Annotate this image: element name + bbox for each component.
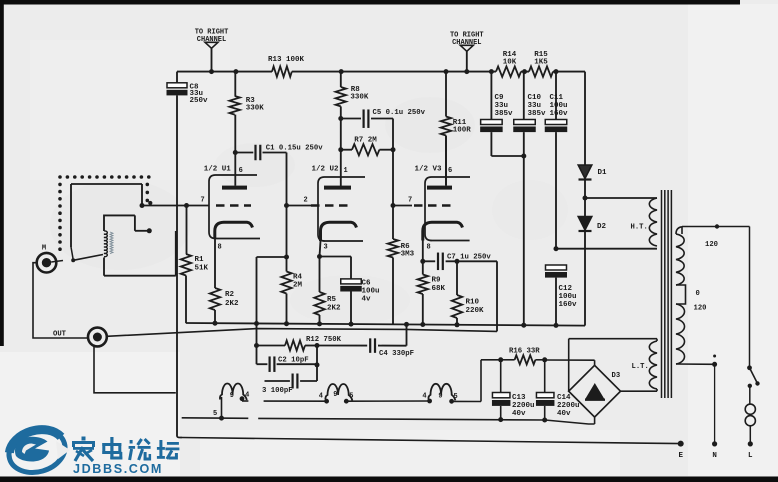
svg-text:160v: 160v <box>550 110 569 118</box>
svg-text:8: 8 <box>218 244 222 252</box>
svg-text:5: 5 <box>213 410 217 418</box>
svg-text:160v: 160v <box>559 301 578 309</box>
svg-text:C7 1u 250v: C7 1u 250v <box>447 253 491 261</box>
svg-text:100u: 100u <box>559 293 577 301</box>
svg-text:250v: 250v <box>190 97 209 105</box>
svg-text:3: 3 <box>324 244 328 252</box>
svg-text:1/2 U1: 1/2 U1 <box>204 166 232 174</box>
svg-text:100u: 100u <box>362 288 380 296</box>
svg-text:C4 330pF: C4 330pF <box>379 350 414 358</box>
svg-text:220K: 220K <box>466 307 485 315</box>
svg-text:33u: 33u <box>495 102 509 110</box>
svg-text:7: 7 <box>201 197 205 205</box>
svg-text:1/2 V3: 1/2 V3 <box>415 166 443 174</box>
svg-text:4: 4 <box>422 392 426 400</box>
svg-text:3M3: 3M3 <box>401 250 415 258</box>
svg-text:E: E <box>678 452 683 460</box>
svg-text:3 100pF: 3 100pF <box>262 387 293 395</box>
svg-text:33u: 33u <box>528 102 542 110</box>
svg-text:1/2 U2: 1/2 U2 <box>312 166 340 174</box>
svg-text:C10: C10 <box>528 94 542 102</box>
svg-text:4: 4 <box>245 391 249 399</box>
svg-text:2200u: 2200u <box>512 402 535 410</box>
svg-text:R4: R4 <box>293 274 303 282</box>
svg-text:JDBBS.COM: JDBBS.COM <box>73 462 163 476</box>
svg-text:R5: R5 <box>327 296 337 304</box>
svg-text:330K: 330K <box>350 93 369 101</box>
svg-text:R2: R2 <box>225 291 235 299</box>
svg-text:OUT: OUT <box>53 331 67 339</box>
svg-text:2200u: 2200u <box>557 402 580 410</box>
svg-text:2K2: 2K2 <box>327 305 341 313</box>
svg-text:C1 0.15u 250v: C1 0.15u 250v <box>266 145 324 153</box>
svg-text:7: 7 <box>408 197 412 205</box>
svg-text:330K: 330K <box>246 104 265 112</box>
svg-text:2M: 2M <box>293 282 303 290</box>
svg-text:C2 10pF: C2 10pF <box>278 357 309 365</box>
svg-text:9: 9 <box>230 392 234 400</box>
svg-text:51K: 51K <box>195 265 209 273</box>
svg-text:R10: R10 <box>466 299 480 307</box>
svg-text:C6: C6 <box>362 280 372 288</box>
svg-text:8: 8 <box>427 244 431 252</box>
svg-text:N: N <box>712 452 717 460</box>
svg-text:40v: 40v <box>557 410 571 418</box>
svg-text:120: 120 <box>705 241 718 249</box>
svg-text:1K5: 1K5 <box>534 59 548 67</box>
svg-text:385v: 385v <box>528 110 547 118</box>
svg-text:H.T.: H.T. <box>631 224 648 232</box>
svg-text:C13: C13 <box>512 394 526 402</box>
svg-text:6: 6 <box>239 167 243 175</box>
svg-text:M: M <box>42 245 46 253</box>
svg-text:D2: D2 <box>597 223 607 231</box>
svg-text:6: 6 <box>448 167 452 175</box>
svg-text:9: 9 <box>333 391 337 399</box>
svg-text:2K2: 2K2 <box>225 300 239 308</box>
svg-text:5: 5 <box>453 393 457 401</box>
svg-text:5: 5 <box>349 392 353 400</box>
svg-text:120: 120 <box>694 305 707 313</box>
svg-text:4v: 4v <box>362 296 372 304</box>
svg-text:R9: R9 <box>432 277 442 285</box>
svg-text:C9: C9 <box>495 94 505 102</box>
svg-text:R1: R1 <box>195 256 205 264</box>
svg-text:2: 2 <box>304 197 308 205</box>
svg-text:R13 100K: R13 100K <box>268 56 305 64</box>
svg-text:C5 0.1u 250v: C5 0.1u 250v <box>373 109 426 117</box>
svg-text:C11: C11 <box>550 94 564 102</box>
svg-text:0: 0 <box>696 290 700 298</box>
svg-text:100R: 100R <box>453 126 472 134</box>
svg-text:10K: 10K <box>503 59 517 67</box>
svg-text:D3: D3 <box>612 372 621 380</box>
svg-text:L.T.: L.T. <box>632 363 649 371</box>
svg-text:L: L <box>748 452 753 460</box>
svg-text:9: 9 <box>438 392 442 400</box>
svg-text:1: 1 <box>344 167 348 175</box>
svg-text:4: 4 <box>319 392 323 400</box>
svg-text:C14: C14 <box>557 394 571 402</box>
svg-text:40v: 40v <box>512 410 526 418</box>
svg-text:R16 33R: R16 33R <box>509 348 540 356</box>
svg-text:C12: C12 <box>559 285 573 293</box>
svg-text:385v: 385v <box>495 110 514 118</box>
svg-text:D1: D1 <box>598 169 608 177</box>
svg-text:68K: 68K <box>432 285 446 293</box>
svg-text:100u: 100u <box>550 102 568 110</box>
svg-text:R12 750K: R12 750K <box>306 336 342 344</box>
svg-text:R7 2M: R7 2M <box>354 136 377 144</box>
